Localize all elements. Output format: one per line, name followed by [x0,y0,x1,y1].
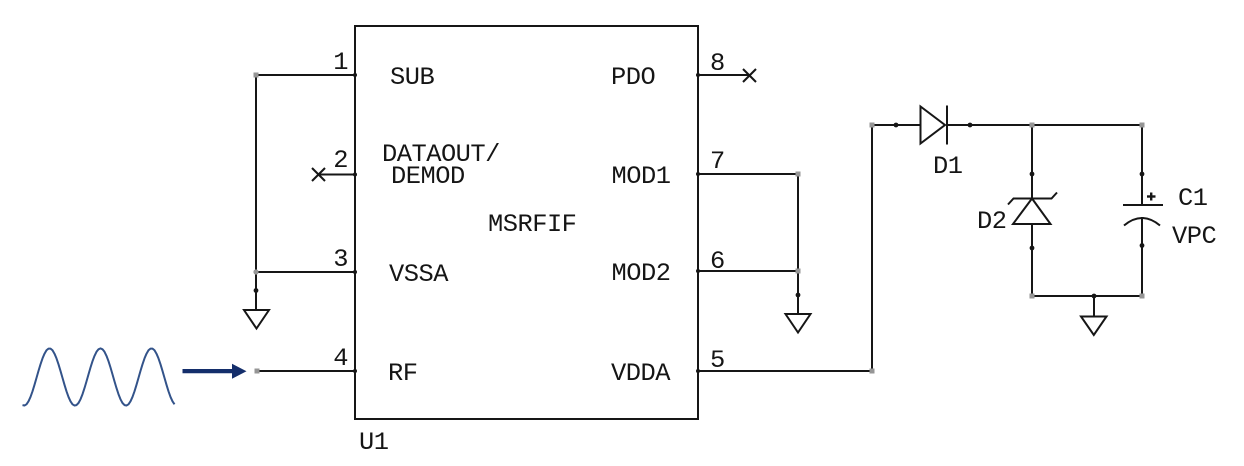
svg-text:SUB: SUB [390,63,434,92]
svg-text:MOD2: MOD2 [612,259,671,288]
svg-text:2: 2 [333,146,348,175]
svg-text:PDO: PDO [611,63,655,92]
svg-text:5: 5 [710,346,725,375]
svg-text:1: 1 [333,48,348,77]
svg-text:D2: D2 [977,207,1006,236]
svg-text:U1: U1 [359,428,389,457]
svg-text:4: 4 [333,344,348,373]
svg-text:RF: RF [388,359,417,388]
svg-text:MOD1: MOD1 [612,162,671,191]
svg-text:3: 3 [333,245,348,274]
svg-text:VSSA: VSSA [389,260,449,289]
svg-text:DEMOD: DEMOD [391,162,465,191]
svg-text:7: 7 [710,147,725,176]
svg-text:MSRFIF: MSRFIF [488,210,576,239]
svg-text:C1: C1 [1178,184,1208,213]
svg-text:VDDA: VDDA [611,359,671,388]
svg-text:8: 8 [710,49,725,78]
svg-text:D1: D1 [933,152,963,181]
svg-text:VPC: VPC [1172,222,1216,251]
svg-text:6: 6 [710,247,725,276]
